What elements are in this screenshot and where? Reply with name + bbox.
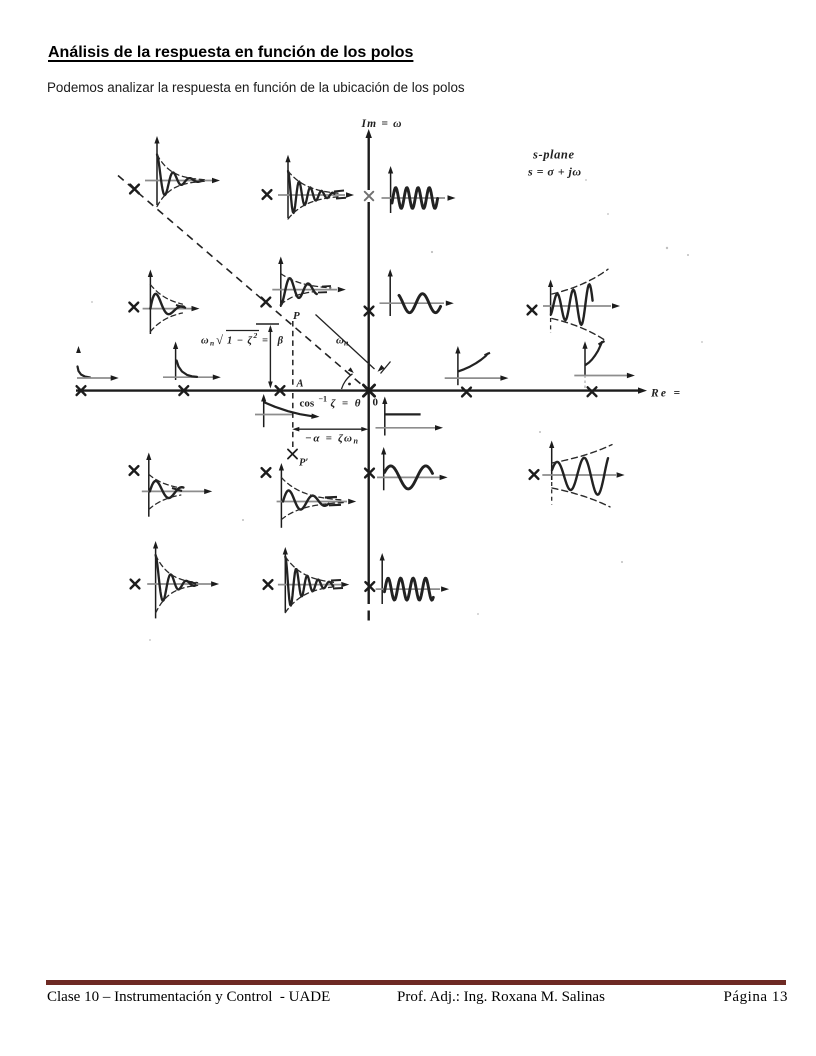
label 0 at origin [373, 397, 379, 409]
svg-text:ζ = θ: ζ = θ [331, 398, 361, 410]
alpha dimension arrow [292, 427, 368, 432]
pole X real axis far left [77, 386, 86, 395]
footer center text [397, 989, 605, 1006]
dashed zeta line (damping ratio diagonal) [118, 176, 367, 390]
pole X row3 left [130, 466, 139, 475]
pole X at -alpha [276, 386, 285, 395]
scan speckles (noise) [91, 179, 703, 641]
svg-text:s = σ + jω: s = σ + jω [527, 165, 581, 179]
sketch row4-left decaying oscillation [147, 541, 219, 618]
sketch row3-mid decaying oscillation [277, 463, 357, 528]
sketch row1-mid fast decaying oscillation [278, 155, 354, 219]
svg-text:ωn: ωn [336, 335, 349, 348]
label wn*sqrt(1-z^2)=beta [201, 331, 284, 348]
sketch growing exponential 1 [445, 346, 509, 385]
P-prime pole X [288, 449, 297, 458]
svg-text:= β: = β [262, 336, 284, 347]
svg-text:−α = ζω: −α = ζω [305, 433, 352, 445]
sketch step (pole at origin) [376, 397, 444, 436]
pole X row1 mid [263, 190, 272, 199]
sketch row3-left slow decaying oscillation [142, 453, 212, 517]
pole X at origin (heavy) [363, 385, 374, 396]
sketch row1-left decaying oscillation [145, 136, 220, 207]
sketch row2-mid decaying oscillation at P [272, 257, 346, 308]
pole X real axis left [179, 386, 188, 395]
pole X row2 on jw axis [365, 307, 374, 316]
footer rule [46, 980, 786, 985]
pole X real axis right [462, 388, 471, 397]
label -alpha = zeta*wn [305, 433, 359, 446]
P label [293, 310, 300, 322]
pole X row2 mid [261, 298, 270, 307]
footer right text [723, 989, 788, 1006]
beta dimension arrow [256, 324, 279, 389]
pole X row3 mid [262, 468, 271, 477]
svg-text:√: √ [216, 333, 223, 347]
pole X row2 left [129, 303, 138, 312]
sigma axis (Re axis) [76, 387, 647, 393]
pole X row4 on jw axis [365, 582, 374, 591]
A label [296, 379, 304, 390]
svg-text:n: n [354, 437, 359, 446]
svg-text:ω: ω [201, 336, 209, 347]
svg-text:1−ζ: 1−ζ [227, 336, 252, 347]
omega-n ray with arrow [316, 315, 391, 374]
pole X row1 left [130, 185, 139, 194]
footer left text [47, 989, 330, 1006]
sketch row4-mid fast decaying oscillation [278, 547, 349, 613]
sketch row4-jw constant sinusoid [376, 553, 450, 604]
svg-text:−1: −1 [319, 395, 328, 404]
svg-text:A: A [296, 379, 304, 390]
sketch row3-jw slow sinusoid [377, 447, 448, 490]
svg-text:cos: cos [300, 398, 315, 410]
svg-text:0: 0 [373, 397, 379, 409]
pole X row2 right [528, 306, 537, 315]
svg-text:s-plane: s-plane [532, 148, 574, 162]
svg-text:Re =: Re = [650, 388, 680, 400]
sketch row2-jw slow sinusoid [380, 269, 454, 316]
omega-n label on ray [336, 335, 349, 348]
s-plane label [527, 148, 581, 179]
svg-text:2: 2 [253, 331, 258, 340]
svg-text:P′: P′ [299, 458, 308, 469]
sigma axis label Re= [650, 388, 680, 400]
pole X row4 mid [264, 580, 273, 589]
sketch row2-right growing oscillation [543, 269, 620, 341]
intro paragraph [47, 80, 465, 95]
page title [48, 44, 413, 62]
sketch below-axis decay for -alpha pole [255, 394, 320, 427]
pole X row3 on jw axis [365, 469, 374, 478]
jw axis label Im=w [361, 118, 402, 130]
dashed vertical through P and P' [292, 321, 294, 449]
pole X real axis far right [588, 387, 597, 396]
svg-text:n: n [210, 339, 214, 348]
jw axis (Im axis) [366, 129, 372, 621]
pole X row1 on jw axis [364, 190, 374, 202]
pole X row3 right [530, 470, 539, 479]
theta angle arc with arrow [342, 367, 354, 389]
pole X row4 left [131, 580, 140, 589]
sketch row1-jw constant sinusoid [382, 166, 456, 213]
sketch row2-left slow decaying oscillation [143, 270, 200, 335]
P-prime label [299, 458, 308, 469]
svg-text:P: P [293, 310, 300, 322]
label cos-1 zeta = theta [300, 395, 361, 410]
sketch real-left fast exponential decay [76, 346, 119, 381]
svg-text:Im = ω: Im = ω [361, 118, 402, 130]
sketch real-left2 exponential decay [163, 342, 221, 381]
sketch row3-right growing oscillation [542, 441, 624, 507]
sketch growing exponential 2 [574, 341, 635, 388]
